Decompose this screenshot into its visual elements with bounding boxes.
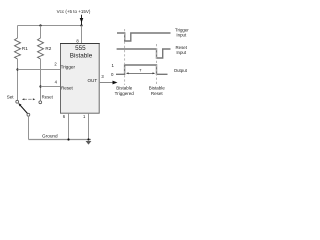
resistor R1: [15, 38, 21, 59]
svg-text:Reset: Reset: [151, 91, 164, 96]
svg-text:Trigger: Trigger: [61, 64, 76, 69]
junction dot reset node: [39, 85, 41, 87]
junction dot at Vcc rail / pin8: [80, 24, 82, 26]
wire R2 top drop: [40, 26, 42, 39]
wire R1 bottom to Set contact: [17, 59, 19, 100]
wire R1 top drop: [17, 26, 19, 39]
svg-text:Output: Output: [174, 68, 188, 73]
wire OUT pin3 with arrow: [100, 82, 114, 84]
switch pivot contact: [27, 113, 30, 116]
wire R2 bottom to Reset contact: [40, 59, 42, 101]
T interval arrow: [127, 72, 154, 74]
dashed timing line trigger edge: [124, 29, 126, 85]
wire pin6 drop to ground: [68, 113, 70, 139]
resistor R2: [38, 38, 44, 59]
wire pin1 drop to ground: [88, 113, 90, 139]
switch throw dashed arrow: [24, 98, 34, 100]
junction dot trigger node: [16, 68, 18, 70]
svg-text:555: 555: [75, 45, 86, 52]
Vcc supply arrow: [80, 15, 84, 26]
svg-text:Bistable: Bistable: [70, 53, 93, 60]
junction dot pin1/ground: [87, 138, 89, 140]
svg-text:Input: Input: [176, 50, 187, 55]
svg-text:Input: Input: [176, 33, 187, 38]
svg-text:Set: Set: [7, 94, 15, 99]
wire pin8 drop to chip: [81, 26, 83, 44]
Reset contact circle: [39, 101, 42, 104]
dashed timing line reset edge: [156, 44, 158, 85]
switch arm: [20, 105, 27, 113]
trigger input waveform: [117, 33, 171, 41]
wire ground rail: [29, 139, 92, 141]
junction dot at Vcc rail / R2: [39, 24, 41, 26]
svg-text:Reset: Reset: [61, 85, 74, 90]
switch SW1 Set contact: [16, 100, 19, 103]
wire Vcc top rail: [18, 25, 82, 27]
svg-text:Reset: Reset: [42, 94, 54, 99]
junction dot pin6/ground: [67, 138, 69, 140]
svg-text:Bistable: Bistable: [149, 85, 166, 90]
svg-text:Ground: Ground: [42, 134, 58, 139]
ground symbol: [86, 141, 92, 145]
svg-text:Bistable: Bistable: [116, 85, 133, 90]
svg-text:R2: R2: [45, 46, 51, 51]
op-amp U1 555 chip body: [61, 44, 100, 114]
wire trigger to pin2: [18, 69, 61, 71]
svg-text:R1: R1: [22, 46, 28, 51]
svg-text:Vcc (+5 to +15V): Vcc (+5 to +15V): [57, 9, 91, 14]
svg-text:OUT: OUT: [87, 78, 97, 83]
svg-text:Triggered: Triggered: [115, 91, 135, 96]
output waveform: [116, 65, 168, 74]
reset input waveform: [117, 49, 171, 58]
wire switch pivot to ground rail: [28, 116, 30, 139]
wire reset to pin4: [41, 86, 61, 88]
